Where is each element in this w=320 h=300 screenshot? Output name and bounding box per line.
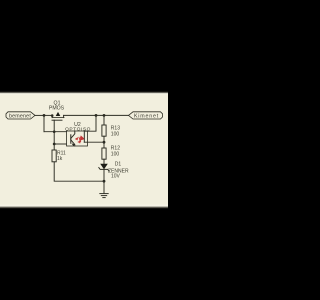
svg-text:100: 100 bbox=[111, 151, 120, 157]
wire Q1 drain to rail bbox=[64, 114, 129, 116]
svg-text:OPTOISO: OPTOISO bbox=[65, 127, 91, 133]
node R11 top junction bbox=[53, 143, 56, 146]
resistor R11 bbox=[52, 150, 56, 162]
wire tag to node bbox=[35, 114, 44, 116]
node anode rail junction bbox=[95, 114, 98, 117]
svg-text:D1: D1 bbox=[115, 162, 122, 168]
wire zener to ground bbox=[103, 169, 105, 193]
letterbox black background bbox=[0, 0, 168, 300]
zener diode D1 bbox=[99, 164, 109, 171]
wire rail to Q1 source bbox=[44, 114, 52, 116]
svg-text:PMOS: PMOS bbox=[49, 105, 65, 111]
wire LED cathode to R13 bottom bbox=[84, 141, 104, 143]
svg-text:100: 100 bbox=[111, 131, 120, 137]
wire rail to R13 bbox=[103, 115, 105, 125]
node bemenet junction bbox=[43, 114, 46, 117]
svg-text:bemenet: bemenet bbox=[9, 114, 31, 120]
node bottom rail junction bbox=[103, 180, 106, 183]
wire Q1 gate lead down bbox=[53, 120, 55, 150]
wire bemenet node down bbox=[43, 115, 45, 131]
resistor R12 bbox=[102, 148, 106, 159]
wire LED anode to rail bbox=[83, 131, 85, 142]
opto phototransistor bbox=[71, 131, 75, 146]
svg-text:10V: 10V bbox=[111, 174, 121, 180]
opto LED D (red) bbox=[75, 136, 84, 143]
svg-text:1k: 1k bbox=[57, 156, 63, 162]
node R13/R12 junction bbox=[103, 141, 106, 144]
optocoupler U2 box bbox=[67, 131, 88, 146]
transistor Q1 bbox=[51, 112, 64, 120]
svg-text:Kimenet: Kimenet bbox=[134, 113, 159, 119]
node R13 rail junction bbox=[103, 114, 106, 117]
wire gate cross link bbox=[44, 131, 67, 133]
output tag Kimenet bbox=[129, 112, 163, 119]
input tag bemenet bbox=[6, 112, 35, 119]
wire to opto emitter bbox=[54, 143, 66, 145]
ground bbox=[100, 194, 108, 198]
node gate junction bbox=[53, 130, 56, 133]
wire R11 to bottom rail bbox=[54, 162, 104, 181]
wire R13 bottom bbox=[103, 136, 105, 148]
resistor R13 bbox=[102, 125, 106, 136]
wire R12 to zener bbox=[103, 159, 105, 164]
